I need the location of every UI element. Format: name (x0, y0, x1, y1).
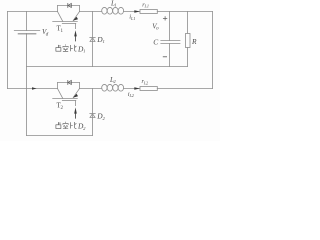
wire lower rail right segment (157, 88, 212, 90)
svg-text:R: R (191, 37, 197, 46)
anti-parallel diode of T1 (68, 3, 72, 7)
transistor T2 body (53, 83, 80, 106)
gate drive arrow of T1 (74, 30, 77, 41)
transistor T1 emitter arrowhead (73, 17, 78, 21)
current arrow i_L2 (134, 87, 140, 90)
resistor r_L1 (140, 10, 157, 14)
wire top rail right segment (157, 11, 212, 13)
resistor R (186, 34, 191, 48)
wire battery negative lead down to bottom rail (26, 34, 28, 136)
wire L1 to r_L1 (124, 11, 141, 13)
label duty cycle D1 (56, 45, 77, 52)
capacitor C bottom lead (169, 44, 171, 67)
wire top rail T1 to L1 (80, 11, 102, 13)
transistor T1 body (53, 6, 80, 29)
resistor r_L2 (140, 87, 157, 91)
diode D1 vertical wire (92, 12, 94, 67)
label duty cycle D2 (56, 122, 77, 129)
capacitor C (161, 41, 180, 44)
diode D2 vertical wire (92, 89, 94, 136)
resistor R bottom lead (187, 48, 189, 67)
resistor R top lead (187, 12, 189, 34)
wire lower rail T2 to L2 (80, 88, 102, 90)
gate drive arrow of T2 (74, 107, 77, 118)
inductor L2 (102, 84, 124, 91)
diode D2 (90, 114, 95, 118)
wire left vertical rail (7, 12, 9, 89)
wire battery top lead (26, 12, 28, 31)
wire mid return rail (27, 66, 188, 68)
inductor L1 (102, 7, 124, 14)
output plus polarity mark (163, 17, 167, 21)
wire L2 to r_L2 (124, 88, 141, 90)
capacitor C top lead (169, 12, 171, 41)
output minus polarity mark (163, 56, 166, 58)
wire lower rail left segment (8, 88, 58, 90)
diode D1 (90, 38, 95, 42)
transistor T2 emitter arrowhead (73, 94, 78, 98)
current arrow i_L1 (134, 10, 140, 13)
anti-parallel diode of T2 (68, 80, 72, 84)
voltage source Vd (14, 31, 40, 34)
current arrow into T2 (32, 87, 37, 90)
svg-text:C: C (153, 38, 158, 47)
wire top rail left segment (8, 11, 58, 13)
wire bottom rail (27, 135, 93, 137)
wire right vertical rail (212, 12, 214, 89)
